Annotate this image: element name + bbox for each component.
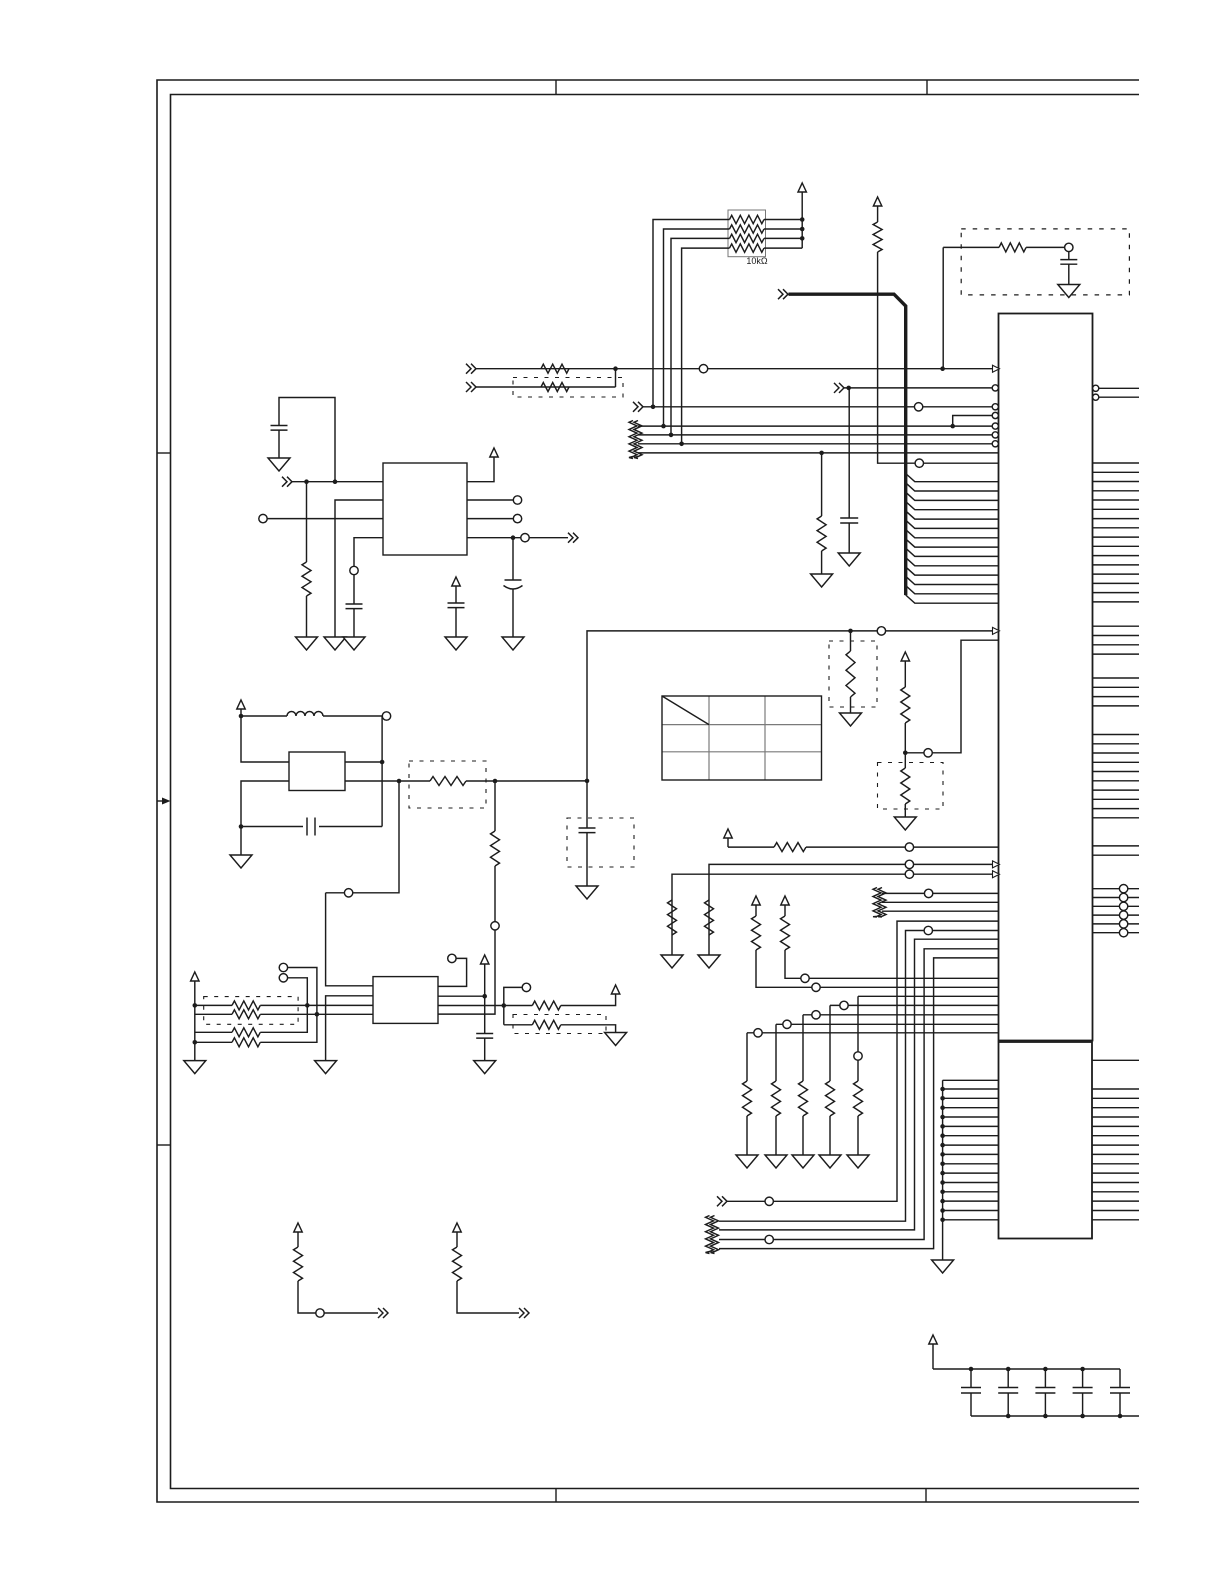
ground U2 pin2	[324, 637, 346, 650]
resistor R pulldown x=858	[854, 1081, 863, 1116]
wire oscillator node B drop	[381, 716, 383, 827]
wire bus line 0 (from chevron) to IC	[633, 402, 643, 412]
IC pin arrow y=864	[993, 861, 1000, 868]
test point circle on x=495 wire	[491, 922, 499, 930]
IC right pin stub with circle y=923.9	[1093, 923, 1140, 925]
test point circle net pin3	[522, 983, 530, 991]
wire L-net pin y=948 to connector line3	[719, 949, 999, 1240]
junction U4 rail y=1135.7	[940, 1133, 945, 1138]
wire U4 pin line y=1080	[943, 1079, 999, 1081]
wire L-net pin y=930 to connector line1	[719, 931, 999, 1222]
connector chevron U2 output	[568, 533, 578, 543]
wire U4 pin line y=1089.0	[943, 1088, 999, 1090]
junction bus line 0 with RN1-a	[651, 405, 656, 410]
wire U4 pin line y=1191.8	[943, 1191, 999, 1193]
bus rip wire to IC pin y=575.1	[906, 567, 999, 575]
terminal circle U2 right pin2	[513, 496, 521, 504]
junction U4 rail y=1126.4	[940, 1124, 945, 1129]
bus rip wire to IC pin y=537.8	[906, 530, 999, 538]
dashed box RC filter	[961, 229, 1129, 295]
junction clock at x=587	[585, 779, 590, 784]
wire RN1-b to bus line 2	[664, 229, 730, 426]
connector chevron stub x=298	[378, 1308, 388, 1318]
IC right pin circle y=388	[1093, 385, 1099, 391]
border center arrow marker left y=801	[157, 800, 162, 802]
IC right pin stub y=472.3	[1093, 471, 1140, 473]
test point circle RC node	[1065, 243, 1073, 251]
wire L-net pin y=921 to connector	[727, 921, 999, 1201]
IC U4 lower driver body	[999, 1042, 1093, 1239]
power symbol VCC x=785	[781, 896, 789, 905]
IC right pin stub y=855.2	[1093, 854, 1140, 856]
wire bus line y=434.9	[638, 434, 992, 436]
dashed box load cap CLK	[567, 818, 634, 867]
IC U4 right pin stub y=1201.1	[1092, 1200, 1139, 1202]
junction U2 pin1 pulldown	[304, 479, 309, 484]
IC right pin stub y=635.5	[1093, 635, 1140, 637]
wire x=785 to IC pin y=978	[785, 950, 999, 978]
wire net RXD long horizontal	[476, 368, 993, 370]
ground mid filter	[445, 637, 467, 650]
capacitor C U3 vcc	[476, 1033, 493, 1035]
wire U2 pin2 to ground rail	[335, 500, 383, 637]
terminal circle U2 right pin3	[513, 514, 521, 522]
dashed box left resistor pair	[204, 997, 298, 1025]
ground right row2	[605, 1033, 627, 1046]
IC pin arrow y=874	[993, 871, 1000, 878]
parameter table grid	[662, 696, 822, 780]
IC U4 right pin stub y=1154.4	[1092, 1153, 1139, 1155]
IC right pin stub y=644.8	[1093, 644, 1140, 646]
junction U4 rail y=1173.1	[940, 1171, 945, 1176]
IC U4 right pin stub y=1135.7	[1092, 1135, 1139, 1137]
wire cluster net into IC pin y=1005.4	[830, 1004, 999, 1006]
IC pin arrow RXD	[993, 365, 1000, 372]
IC right pin stub y=481.5	[1093, 481, 1140, 483]
wire stub x=298	[298, 1281, 378, 1313]
junction bus line y=426.1	[661, 424, 666, 429]
IC U4 right pin stub y=1089.0	[1092, 1088, 1139, 1090]
wire U2 right pin1 to VCC	[467, 457, 494, 482]
wire cap bank bottom rail	[971, 1415, 1139, 1417]
junction RXD/TXD merge	[613, 366, 618, 371]
junction cap bank bottom	[1118, 1414, 1123, 1419]
IC U4 right pin stub y=1210.5	[1092, 1210, 1139, 1212]
wire net IRQ to IC	[844, 387, 992, 389]
IC U3 body	[373, 977, 438, 1024]
resistor R pulldown CLK	[850, 631, 852, 651]
power symbol VCC mid filter	[452, 577, 460, 586]
wire U2 right pin3	[467, 518, 513, 520]
IC right pin stub y=574.1	[1093, 573, 1140, 575]
IC right pin stub y=817.8	[1093, 817, 1140, 819]
IC right pin stub y=687.3	[1093, 686, 1140, 688]
junction jog on bus line 1	[950, 424, 955, 429]
IC right pin stub y=463.0	[1093, 462, 1140, 464]
junction pin3 testpoint drop	[502, 1003, 507, 1008]
crystal X1 body	[289, 752, 345, 791]
dashed box pulldown resistor x=905	[878, 763, 944, 810]
test point circle y=1014.8	[812, 1011, 820, 1019]
ground under IRQ cap	[838, 553, 860, 566]
resistor R row3	[195, 1031, 232, 1033]
wire top loop over U2	[279, 398, 335, 482]
wire crystal top left	[241, 716, 289, 762]
junction CLK pulldown	[848, 629, 853, 634]
test point circle y=1032.8	[754, 1029, 762, 1037]
resistor R in RC filter	[999, 243, 1026, 252]
thick address bus wire	[789, 294, 906, 595]
wire x=877.6 down to IC pin	[878, 252, 999, 463]
terminal circle sense B	[279, 974, 287, 982]
bus rip wire to IC pin y=547.1	[906, 539, 999, 547]
resistor R series x=905	[901, 687, 910, 723]
power symbol VCC stub x=298	[294, 1223, 302, 1232]
bus rip wire to IC pin y=481.7	[906, 474, 999, 482]
IC pin arrow CLK	[993, 627, 1000, 634]
wire U4 pin line y=1163.8	[943, 1163, 999, 1165]
ground U2 output cap	[502, 637, 524, 650]
power symbol VCC net y=847	[724, 829, 732, 838]
test point circle y=1201	[765, 1197, 773, 1205]
junction bus line y=443.8	[679, 442, 684, 447]
test point circle y=987	[812, 983, 820, 991]
resistor R row1	[195, 1004, 232, 1006]
wire net into U2 pin1	[292, 481, 383, 483]
ground pulldown x=821.6	[811, 574, 833, 587]
ground U2 pin4 cap	[343, 637, 365, 650]
resistor R x=756	[752, 916, 761, 950]
border tick top x=927	[926, 80, 928, 95]
test point circle node OSC2	[344, 889, 352, 897]
power symbol VCC cap bank	[929, 1335, 937, 1344]
resistor R pulldown U2	[306, 482, 308, 562]
IC right pin stub y=799.3	[1093, 798, 1140, 800]
junction U2 pin1 top loop	[333, 479, 338, 484]
junction U4 rail y=1107.7	[940, 1105, 945, 1110]
bus-entry zig connector nets y=893-911	[873, 888, 881, 918]
resistor R stub x=457	[453, 1247, 462, 1281]
wire RN1-a to bus line 1	[653, 220, 730, 407]
capacitor C bank 2	[1007, 1369, 1009, 1388]
wire net y=902	[882, 901, 999, 903]
bus rip wire to IC pin y=528.4	[906, 520, 999, 528]
wire RN1-c to bus line 3	[671, 238, 730, 435]
wire U4 pin line y=1210.5	[943, 1210, 999, 1212]
junction RN1 common	[800, 217, 805, 222]
IC right pin stub y=518.6	[1093, 518, 1140, 520]
IC right pin stub y=601.9	[1093, 601, 1140, 603]
IC right pin stub y=500.0	[1093, 499, 1140, 501]
bus rip wire to IC pin y=491.0	[906, 483, 999, 491]
terminal circle sense C	[448, 954, 456, 962]
junction node B crystal top	[380, 760, 385, 765]
connector chevron net IRQ	[834, 383, 844, 393]
test point circle U2 output	[521, 534, 529, 542]
IC right pin stub y=592.6	[1093, 592, 1140, 594]
wire bus line y=426.1	[638, 425, 992, 427]
junction row2 right	[315, 1012, 320, 1017]
ground x=709	[698, 955, 720, 968]
IC U2 body	[383, 463, 467, 555]
page border inner frame	[171, 95, 1140, 1489]
ground U3 pin2	[315, 1061, 337, 1074]
power symbol VCC at U2	[490, 448, 498, 457]
resistor R pulldown x=776	[772, 1081, 781, 1116]
ground top-left cap	[268, 458, 290, 471]
capacitor C bank 3	[1044, 1369, 1046, 1388]
wire pulldown drop x=821.6	[821, 453, 823, 516]
IC right pin stub y=753.0	[1093, 752, 1140, 754]
ground oscillator	[240, 827, 242, 856]
connector chevron net TXD	[466, 382, 476, 392]
IC U4 right pin stub y=1117.0	[1092, 1116, 1139, 1118]
junction cap bank top	[1043, 1367, 1048, 1372]
IC right pin stub y=537.1	[1093, 536, 1140, 538]
border tick left y=453	[157, 452, 171, 454]
junction U4 rail y=1182.5	[940, 1180, 945, 1185]
IC U4 right pin stub y=1163.8	[1092, 1163, 1139, 1165]
test point circle y=874	[905, 870, 913, 878]
power symbol VCC left resistor group	[191, 972, 199, 981]
resistor R pullup right row1	[532, 1001, 561, 1010]
wire into RC filter	[943, 246, 999, 248]
ground left resistor group	[184, 1061, 206, 1074]
wire RC filter to IC pin RESET	[942, 247, 944, 369]
junction cap bank top	[969, 1367, 974, 1372]
IC right pin stub y=564.9	[1093, 564, 1140, 566]
wire U3 right pin1 to sense circle	[438, 958, 467, 986]
wire U4 pin line y=1145.1	[943, 1144, 999, 1146]
ground x=905	[894, 817, 916, 830]
IC right pin stub y=490.8	[1093, 490, 1140, 492]
ground in RC filter	[1058, 285, 1080, 298]
junction cap bank bottom	[1043, 1414, 1048, 1419]
terminal circle oscillator out	[382, 712, 390, 720]
IC right pin stub y=734.5	[1093, 734, 1140, 736]
dashed box around TXD resistor	[513, 378, 623, 398]
bus rip wire to IC pin y=593.8	[906, 586, 999, 594]
junction crystal bottom output	[397, 779, 402, 784]
resistor network RN1 box	[728, 210, 766, 257]
IC U4 right pin stub y=1145.1	[1092, 1144, 1139, 1146]
test point circle net y=463	[915, 459, 923, 467]
IC right pin stub with circle y=906.3	[1093, 905, 1140, 907]
junction U4 rail y=1154.4	[940, 1152, 945, 1157]
connector chevron thick bus input	[778, 289, 788, 299]
test point circle inline x=858	[854, 1052, 862, 1060]
junction cap bank top	[1080, 1367, 1085, 1372]
dashed box right resistor row2	[513, 1015, 606, 1034]
wire U4 pin line y=1126.4	[943, 1125, 999, 1127]
dashed box pulldown resistor x=850	[829, 641, 877, 707]
inductor L1	[241, 715, 287, 717]
wire node to IC pin via x=961	[905, 640, 998, 753]
bus rip wire to IC pin y=603.2	[906, 595, 999, 603]
capacitor C U2 pin4	[346, 603, 363, 605]
connector chevron net RXD	[466, 364, 476, 374]
IC right pin stub y=527.8	[1093, 527, 1140, 529]
test point circle on RXD	[699, 365, 707, 373]
wire cluster net into IC pin y=1014.8	[803, 1014, 999, 1016]
bus-entry zig connector lines 1-4	[629, 421, 637, 459]
IC pin circle bus line y=426.1	[992, 423, 998, 429]
wire cap bank top rail	[933, 1368, 1120, 1370]
bus-entry zig connector bottom lines	[706, 1216, 714, 1254]
test point circle bus line 0	[914, 403, 922, 411]
resistor R pulldown x=709	[705, 900, 714, 935]
junction U4 rail y=1201.1	[940, 1199, 945, 1204]
svg-text:10kΩ: 10kΩ	[746, 256, 768, 266]
test point circle U2 pin4 branch	[350, 566, 358, 574]
resistor RN1-c	[730, 234, 765, 242]
wire x=756 to IC pin y=987	[756, 950, 999, 987]
wire net y=893	[882, 892, 999, 894]
wire L-net pin y=957 to connector line4	[719, 958, 999, 1249]
capacitor C mid filter	[448, 602, 465, 604]
IC U4 right pin stub y=1173.1	[1092, 1172, 1139, 1174]
wire cluster net into IC pin y=1032.8	[747, 1032, 999, 1034]
power symbol VCC x=877.6	[873, 197, 881, 206]
IC right pin stub y=555.6	[1093, 555, 1140, 557]
resistor R feedback drop x=495	[494, 781, 496, 831]
ground cluster x=803	[792, 1155, 814, 1168]
wire net TXD	[476, 386, 616, 388]
ground cluster x=858	[847, 1155, 869, 1168]
table header diagonal	[662, 696, 709, 725]
IC pin circle IRQ	[992, 385, 998, 391]
junction U4 rail y=1219.8	[940, 1218, 945, 1223]
wire U4 pin line y=1182.5	[943, 1182, 999, 1184]
junction cap bank top	[1006, 1367, 1011, 1372]
IC right pin stub with circle y=888.7	[1093, 888, 1140, 890]
test point circle y=1024.3	[783, 1020, 791, 1028]
wire osc node to U3 via x=399	[326, 781, 399, 893]
IC pin circle bus line y=443.8	[992, 441, 998, 447]
IC right pin stub y=808.6	[1093, 808, 1140, 810]
resistor RN1-d	[730, 244, 765, 252]
ground cluster x=747	[736, 1155, 758, 1168]
wire RN1-d to bus line 4	[682, 248, 730, 444]
test point circle y=847	[905, 843, 913, 851]
wire U3 right pin3 net	[438, 1005, 532, 1007]
wire U4 pin line y=1219.8	[943, 1219, 999, 1221]
resistor RN1-a	[730, 215, 765, 223]
IC U4 right pin stub y=1126.4	[1092, 1125, 1139, 1127]
wire L-net pin y=939 to connector line2	[719, 939, 999, 1230]
ground x=672	[661, 955, 683, 968]
junction U4 rail y=1210.5	[940, 1208, 945, 1213]
IC right pin stub y=583.4	[1093, 582, 1140, 584]
wire net y=911	[882, 910, 999, 912]
resistor R pulldown x=821.6	[817, 516, 826, 551]
IC right pin stub y=780.8	[1093, 780, 1140, 782]
capacitor C bank 4	[1082, 1369, 1084, 1388]
bus rip wire to IC pin y=509.7	[906, 502, 999, 510]
IC pin circle bus line 0	[992, 404, 998, 410]
junction cap bank bottom	[1080, 1414, 1085, 1419]
test point circle y=930	[924, 926, 932, 934]
power symbol VCC net x=905	[901, 652, 909, 661]
capacitor C in RC filter	[1068, 252, 1070, 260]
wire U4 pin line y=1117.0	[943, 1116, 999, 1118]
test point circle y=893	[924, 889, 932, 897]
resistor R stub x=298	[294, 1247, 303, 1281]
resistor R x=785	[781, 916, 790, 950]
junction cap bank bottom	[1006, 1414, 1011, 1419]
test point circle node x=928	[924, 749, 932, 757]
wire U4 pin line y=1154.4	[943, 1153, 999, 1155]
IC pin circle jog line	[992, 412, 998, 418]
wire U4 pin line y=1107.7	[943, 1107, 999, 1109]
junction x=905 node	[903, 751, 908, 756]
border tick bottom x=926	[925, 1489, 927, 1503]
input circle U2 pin3	[259, 514, 267, 522]
resistor R pulldown x=905	[901, 768, 910, 804]
capacitor C on IRQ branch	[840, 517, 858, 519]
resistor R net RXD	[541, 364, 569, 373]
wire U4 pin line y=1098.3	[943, 1097, 999, 1099]
junction U4 rail y=1117.0	[940, 1115, 945, 1120]
wire sense A	[288, 968, 317, 1015]
IC right pin stub y=771.5	[1093, 771, 1140, 773]
test point circle y=1239	[765, 1235, 773, 1243]
wire U4 pin line y=1173.1	[943, 1172, 999, 1174]
test point circle stub	[316, 1309, 324, 1317]
junction VCC oscillator	[239, 714, 244, 719]
wire crystal top right	[345, 761, 382, 763]
IC right pin stub y=509.3	[1093, 508, 1140, 510]
wire U3 right pin2	[438, 995, 485, 997]
junction bus line 4 pulldown	[819, 451, 824, 456]
capacitor C osc (vertical plates)	[241, 826, 303, 828]
power symbol VCC x=756	[752, 896, 760, 905]
wire TXD up to RXD junction	[615, 369, 617, 387]
wire U4 pin line y=1135.7	[943, 1135, 999, 1137]
wire x=495 down to U3 pin	[438, 866, 495, 1014]
resistor R pulldown x=803	[799, 1081, 808, 1116]
wire sense B	[288, 978, 308, 1006]
IC right pin circle y=397	[1093, 394, 1099, 400]
IC right pin stub y=743.8	[1093, 743, 1140, 745]
capacitor C load on clock	[586, 781, 588, 828]
power symbol VCC above resistor network RN1	[798, 183, 806, 192]
power symbol VCC oscillator	[237, 700, 245, 709]
IC right pin stub with circle y=897.5	[1093, 897, 1140, 899]
wire resistor to clock node	[466, 780, 587, 782]
ground CLK pulldown	[840, 713, 862, 726]
border tick left y=1145	[157, 1144, 171, 1146]
wire U3 pin2 ground rail	[326, 996, 373, 1061]
IC right pin stub y=626.2	[1093, 625, 1140, 627]
resistor RN1-b	[730, 225, 765, 233]
resistor R row2	[195, 1013, 232, 1015]
IC right pin stub with circle y=915.1	[1093, 914, 1140, 916]
border tick bottom x=556	[555, 1489, 557, 1503]
IC right pin stub y=845.9	[1093, 845, 1140, 847]
bus rip wire to IC pin y=584.5	[906, 576, 999, 584]
power symbol VCC stub x=457	[453, 1223, 461, 1232]
border tick top x=556	[555, 80, 557, 95]
resistor R series x=877.6	[873, 222, 882, 252]
ground pulldown U2	[296, 637, 318, 650]
IC U4 right pin stub y=1191.8	[1092, 1191, 1139, 1193]
junction cap node A	[239, 824, 244, 829]
junction clock branch	[493, 779, 498, 784]
wire stub x=457	[457, 1281, 519, 1313]
ground cluster x=830	[819, 1155, 841, 1168]
connector chevron stub x=457	[519, 1308, 529, 1318]
